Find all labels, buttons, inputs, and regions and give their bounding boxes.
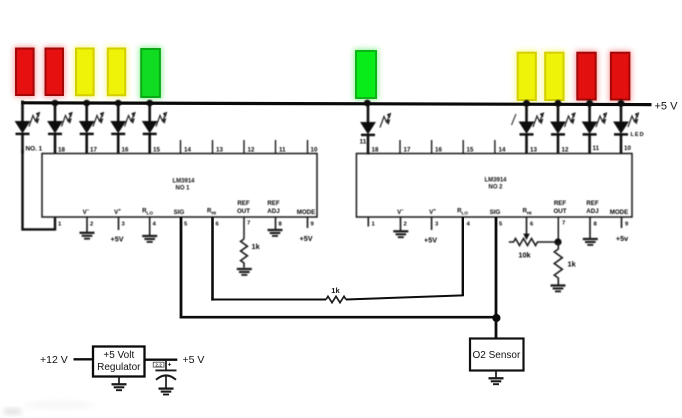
LED bar 4 yellow	[108, 49, 125, 96]
wire 1k to R_LO 2	[346, 295, 463, 299]
capacitor C1 2.2uF: value box	[153, 362, 164, 367]
svg-text:18: 18	[372, 147, 379, 154]
IC2 pin 3 stub	[431, 217, 433, 230]
svg-text:NO 1: NO 1	[175, 186, 190, 192]
IC2 pin 14 stub	[494, 140, 496, 154]
LED D14 (pin 12 IC2)	[551, 101, 565, 154]
potentiometer wiper arrow	[523, 234, 530, 240]
svg-text:+5 V: +5 V	[183, 354, 205, 366]
ground at IC1 pin 2	[80, 233, 95, 239]
svg-text:17: 17	[404, 147, 411, 154]
O2 sensor box	[470, 339, 524, 371]
LED bar 3 yellow	[76, 49, 94, 96]
LED bar right red 2	[611, 53, 630, 100]
svg-text:+12 V: +12 V	[40, 354, 68, 366]
ground at regulator	[112, 384, 127, 390]
IC1 pin 4 stub	[149, 217, 151, 236]
capacitor C1 bottom lead	[165, 376, 167, 389]
LED D16 light arrows	[628, 113, 639, 128]
capacitor C1 top lead	[165, 360, 167, 370]
svg-text:+5V: +5V	[424, 236, 437, 245]
LED D13 (pin 13 IC2)	[520, 101, 534, 154]
node junction rail/LED D15	[586, 100, 593, 107]
svg-text:13: 13	[216, 147, 223, 154]
LED bar right red 1 (glow)	[575, 51, 597, 102]
LED D11 light arrows	[380, 113, 391, 128]
LED bar 11 green middle	[356, 51, 376, 98]
wire regulator output	[145, 359, 178, 361]
IC2 pin 8 stub	[589, 217, 591, 239]
IC1 bottom pin-name labels	[83, 200, 316, 216]
svg-text:OUT: OUT	[553, 208, 566, 215]
svg-text:1k: 1k	[331, 286, 340, 295]
IC1 pin 9 stub	[307, 217, 309, 228]
svg-text:12: 12	[562, 147, 569, 154]
LED D4 (pin 16)	[111, 101, 125, 154]
LED bar 5 green (glow)	[139, 47, 162, 99]
wire O2 sensor to ground	[495, 371, 497, 379]
node junction pot/REF OUT/1k	[554, 238, 561, 245]
svg-text:11: 11	[593, 145, 600, 152]
wire regulator to ground	[118, 377, 120, 385]
IC1 bottom pin number labels	[58, 221, 315, 228]
svg-text:+5v: +5v	[616, 234, 628, 243]
LED D13 light arrows	[533, 113, 544, 128]
IC1 top pin number labels	[58, 147, 318, 154]
svg-text:Regulator: Regulator	[97, 362, 141, 373]
op-amp U2 body: IC LM3914 No.2 box	[356, 154, 632, 218]
svg-text:OUT: OUT	[237, 208, 250, 215]
LED bar 1 red (glow)	[14, 47, 36, 98]
IC1 pin 7 wire	[243, 217, 245, 239]
svg-text:NO. 1: NO. 1	[26, 146, 43, 153]
wire RHI1 vertical	[211, 217, 214, 301]
svg-text:13: 13	[530, 147, 537, 154]
LED bar right yellow 2	[545, 53, 563, 100]
ground below 1k (IC2)	[551, 286, 566, 292]
svg-text:16: 16	[122, 147, 129, 154]
IC1 pin 10 stub	[307, 140, 309, 154]
IC1 pin 11 stub	[275, 140, 277, 154]
ground at IC1 pin 4	[142, 236, 157, 242]
wire +5V rail	[21, 103, 651, 105]
svg-text:SIG: SIG	[490, 209, 501, 216]
LED D5 (pin 15)	[143, 101, 157, 154]
ground at IC1 pin 8	[268, 230, 283, 236]
svg-text:O2 Sensor: O2 Sensor	[473, 350, 521, 361]
LED bar right red 1	[577, 53, 595, 100]
node junction rail/LED D3	[83, 100, 90, 107]
svg-text:10k: 10k	[518, 251, 531, 260]
LED D3 light arrows	[93, 112, 104, 127]
svg-text:14: 14	[499, 147, 506, 154]
svg-text:REF: REF	[554, 200, 567, 207]
svg-text:SIG: SIG	[174, 209, 185, 216]
svg-text:10: 10	[311, 147, 318, 154]
ground at IC2 pin 2	[393, 231, 408, 237]
capacitor C1 curved plate	[156, 375, 176, 379]
LED bar right yellow 1	[518, 53, 536, 100]
svg-text:REF: REF	[267, 200, 280, 207]
ground at capacitor C1	[159, 389, 174, 395]
IC2 pin 6 wiper wire	[526, 217, 528, 235]
wire SIG1 vertical	[180, 217, 183, 318]
node junction rail/LED D11 green	[364, 100, 371, 107]
svg-text:ADJ: ADJ	[267, 208, 280, 215]
wire SIG2 vertical down to O2 sensor	[495, 217, 498, 339]
IC1 pin 2 stub	[86, 217, 88, 233]
svg-text:1k: 1k	[252, 242, 261, 251]
IC1 pin 3 stub	[118, 217, 120, 230]
LED D16 (pin 10 IC2)	[614, 101, 628, 154]
wire SIG bus horizontal	[180, 316, 497, 319]
IC2 bottom pin number labels	[372, 221, 630, 228]
LED D2 (pin 18)	[48, 101, 62, 154]
LED bar 3 yellow (glow)	[74, 47, 96, 98]
ground at O2 sensor	[489, 378, 504, 384]
LED bar right yellow 2 (glow)	[543, 51, 565, 102]
svg-text:12: 12	[248, 147, 255, 154]
LED bar 2 red (glow)	[44, 47, 66, 98]
svg-text:11: 11	[360, 139, 367, 146]
LED D14 light arrows	[565, 113, 576, 128]
IC1 pin 12 stub	[243, 140, 245, 154]
svg-text:15: 15	[153, 147, 160, 154]
svg-text:NO 2: NO 2	[488, 185, 503, 191]
IC2 bottom pin-name labels	[397, 200, 628, 216]
svg-text:LM3914: LM3914	[484, 178, 507, 184]
node junction rail/LED D14	[555, 100, 562, 107]
svg-text:15: 15	[467, 147, 474, 154]
svg-text:+5 Volt: +5 Volt	[103, 350, 134, 361]
node junction rail/LED D13	[523, 100, 530, 107]
wire RHI1 to 1k	[211, 299, 326, 301]
potentiometer 10k body	[509, 239, 559, 246]
svg-text:11: 11	[279, 147, 286, 154]
IC2 pin 16 stub	[431, 140, 433, 154]
IC1 pin 13 stub	[212, 140, 214, 154]
wire +12V input	[74, 358, 94, 360]
IC2 top pin number labels	[372, 145, 632, 154]
svg-text:REF: REF	[237, 200, 250, 207]
svg-text:+5V: +5V	[111, 235, 124, 244]
LED D11 green (pin 18 IC2)	[361, 102, 375, 155]
LED D2 light arrows	[62, 112, 73, 127]
svg-text:MODE: MODE	[297, 209, 316, 216]
ground below 1k (IC1 pin7)	[237, 269, 252, 275]
regulator U3 box	[93, 347, 145, 377]
node junction rail/LED D16	[618, 100, 625, 107]
resistor 1k at IC1 REF OUT	[241, 239, 248, 268]
IC2 pin 15 stub	[462, 140, 464, 154]
node junction rail/LED D4	[115, 100, 122, 107]
svg-text:+5V: +5V	[300, 234, 313, 243]
capacitor C1 top plate	[155, 369, 176, 371]
svg-text:14: 14	[184, 147, 191, 154]
wire LED D1 cathode to pin 1	[23, 150, 56, 229]
LED D4 light arrows	[125, 112, 136, 127]
svg-text:LM3914: LM3914	[172, 179, 195, 185]
node junction rail/LED D2	[52, 100, 59, 107]
svg-text:1k: 1k	[568, 260, 577, 269]
LED bar 4 yellow (glow)	[106, 47, 127, 98]
svg-text:16: 16	[435, 147, 442, 154]
faint scan smudge bottom-left	[25, 402, 95, 409]
svg-text:10: 10	[624, 145, 631, 152]
op-amp U1 body: IC LM3914 No.1 box	[42, 154, 317, 218]
node junction rail/LED D5	[146, 100, 153, 107]
IC2 pin 9 stub	[621, 217, 623, 228]
LED D1 (No.1, pin 1)	[16, 101, 30, 154]
LED bar 11 green middle (glow)	[354, 49, 378, 100]
node junction SIG bus / O2 sensor	[492, 314, 500, 322]
IC1 pin 14 stub	[180, 140, 182, 154]
ground at IC2 pin 8	[583, 239, 598, 245]
LED D1 light arrows	[29, 112, 40, 127]
wire RLO2 vertical	[462, 217, 464, 296]
LED D15 light arrows	[596, 113, 607, 128]
resistor 1k at IC2 REF OUT	[554, 242, 562, 285]
IC2 pin 2 stub	[400, 217, 402, 231]
resistor 1k between R_HI 1 and R_LO 2	[326, 296, 346, 302]
LED bar 5 green	[141, 49, 160, 97]
svg-text:MODE: MODE	[610, 209, 629, 216]
LED D3 (pin 17)	[80, 101, 94, 154]
LED bar 1 red	[16, 49, 34, 96]
IC2 pin 17 stub	[399, 140, 401, 154]
LED bar right yellow 1 (glow)	[516, 51, 538, 102]
LED bar right red 2 (glow)	[609, 51, 632, 102]
LED bar 2 red	[46, 49, 64, 96]
IC2 pin 7 wire	[557, 217, 559, 242]
svg-text:18: 18	[58, 147, 65, 154]
svg-text:ADJ: ADJ	[586, 208, 599, 215]
svg-text:+5 V: +5 V	[655, 101, 679, 113]
svg-text:+: +	[168, 362, 172, 369]
svg-text:REF: REF	[586, 200, 599, 207]
svg-text:LED: LED	[631, 132, 645, 138]
svg-text:17: 17	[90, 147, 97, 154]
IC1 pin 8 stub	[275, 217, 277, 230]
IC2 pin 1 stub	[367, 217, 369, 227]
svg-text:2.2: 2.2	[155, 363, 162, 368]
LED D5 light arrows	[156, 112, 167, 127]
LED D15 (pin 11 IC2)	[583, 101, 597, 154]
small stray arrow left of LED D13	[512, 114, 517, 125]
